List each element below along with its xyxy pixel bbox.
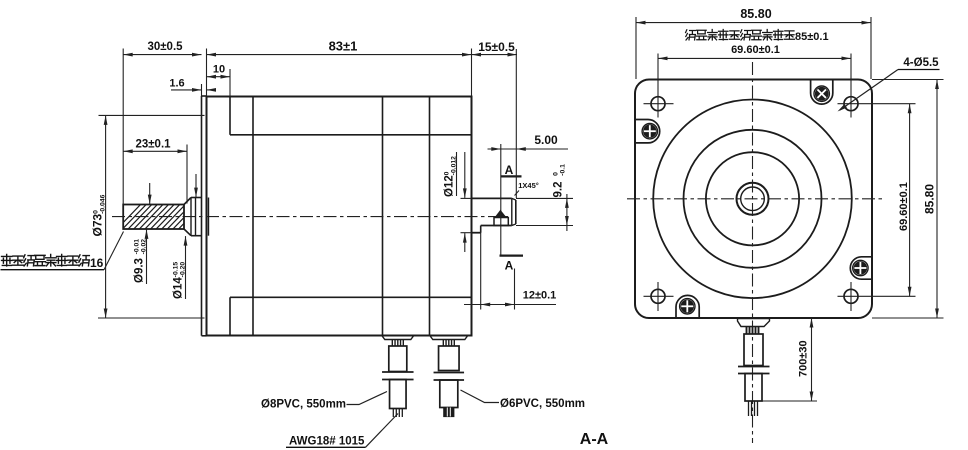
svg-text:69.60±0.1: 69.60±0.1 xyxy=(898,182,910,231)
svg-text:69.60±0.1: 69.60±0.1 xyxy=(731,44,780,56)
svg-text:Ø73: Ø73 xyxy=(91,213,105,236)
svg-text:4-Ø5.5: 4-Ø5.5 xyxy=(903,57,939,69)
svg-text:Ø12: Ø12 xyxy=(444,175,456,197)
svg-text:23±0.1: 23±0.1 xyxy=(135,138,171,150)
svg-text:0: 0 xyxy=(443,171,450,175)
svg-text:A: A xyxy=(505,259,514,273)
svg-text:30±0.5: 30±0.5 xyxy=(147,41,183,53)
svg-text:10: 10 xyxy=(213,63,225,75)
svg-text:A: A xyxy=(505,163,514,177)
svg-text:-0.046: -0.046 xyxy=(99,194,106,213)
svg-text:-0.15: -0.15 xyxy=(172,262,179,278)
svg-text:Ø8PVC, 550mm: Ø8PVC, 550mm xyxy=(261,398,346,410)
svg-text:16: 16 xyxy=(90,256,104,270)
svg-text:0: 0 xyxy=(552,172,559,176)
svg-text:700±30: 700±30 xyxy=(798,340,810,377)
svg-text:83±1: 83±1 xyxy=(329,39,358,54)
svg-text:12±0.1: 12±0.1 xyxy=(523,290,557,302)
svg-text:A-A: A-A xyxy=(580,431,609,448)
svg-text:AWG18# 1015: AWG18# 1015 xyxy=(289,435,365,447)
svg-text:1.6: 1.6 xyxy=(169,78,184,90)
svg-text:1X45°: 1X45° xyxy=(518,181,539,190)
svg-text:85±0.1: 85±0.1 xyxy=(795,31,829,43)
svg-text:85.80: 85.80 xyxy=(740,7,771,21)
svg-text:Ø14: Ø14 xyxy=(173,277,185,299)
svg-text:Ø6PVC, 550mm: Ø6PVC, 550mm xyxy=(500,398,585,410)
svg-text:-0.02: -0.02 xyxy=(140,239,147,255)
svg-text:-0.1: -0.1 xyxy=(559,164,566,176)
svg-text:-0.012: -0.012 xyxy=(450,156,457,175)
svg-text:9.2: 9.2 xyxy=(553,182,565,198)
svg-text:85.80: 85.80 xyxy=(923,184,937,214)
svg-text:-0.20: -0.20 xyxy=(179,262,186,278)
svg-text:-0.01: -0.01 xyxy=(133,239,140,255)
svg-text:5.00: 5.00 xyxy=(534,133,558,147)
svg-text:0: 0 xyxy=(92,210,99,214)
svg-text:15±0.5: 15±0.5 xyxy=(478,40,515,54)
svg-text:Ø9.3: Ø9.3 xyxy=(134,258,146,283)
